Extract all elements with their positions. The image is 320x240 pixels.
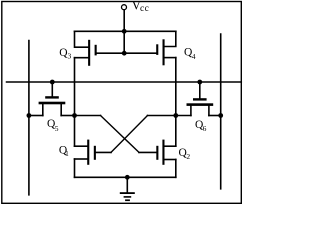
wire Q1 source down (74, 159, 76, 177)
wire Q6 gate lead (199, 82, 201, 98)
label Q2 (179, 147, 191, 161)
wire Vcc vertical (123, 10, 125, 53)
wire gate rail Q3-Q4 with Vcc tap (97, 52, 157, 54)
node dot left output (72, 113, 77, 118)
wire Q1 gate lead (96, 151, 111, 153)
label Q5 (47, 118, 59, 133)
wire right bit line (220, 34, 222, 189)
node dot on gate rail (122, 51, 127, 56)
wire Q6 to right bit line (209, 115, 221, 117)
label Q6 (195, 119, 207, 133)
wire left drop to Q3 drain (75, 31, 89, 47)
node dot bit line right (218, 113, 223, 118)
wire Q5 to left bit line (29, 115, 43, 117)
wire diagonal right node to Q1 gate (111, 116, 148, 153)
wire Q2 source down (175, 160, 177, 178)
wire left output node vertical (74, 58, 76, 147)
label Q1 (59, 144, 69, 158)
transistor Q3 (75, 40, 97, 66)
wire right output node vertical (175, 58, 177, 147)
transistor Q5 (39, 96, 66, 115)
svg-text:1: 1 (65, 150, 69, 158)
wire Q5 to left node (61, 115, 74, 117)
node dot bit line left (27, 113, 32, 118)
svg-text:6: 6 (203, 124, 207, 133)
label Vcc (132, 0, 149, 14)
svg-text:3: 3 (68, 51, 72, 60)
wire top drain rail (75, 30, 176, 32)
wire source rail (75, 176, 176, 178)
svg-text:2: 2 (186, 152, 190, 161)
label Q4 (184, 47, 196, 62)
transistor Q1 (75, 140, 96, 165)
terminal Vcc circle (122, 5, 127, 10)
svg-text:5: 5 (55, 124, 59, 133)
node dot word line right (197, 80, 202, 85)
node dot right output (173, 113, 178, 118)
wire cross stub right (148, 115, 176, 117)
wire Q6 to right node (176, 115, 191, 117)
node dot source rail (125, 175, 130, 180)
transistor Q2 (156, 140, 176, 165)
wire Q5 gate lead (51, 82, 53, 96)
wire Q2 gate lead (139, 151, 156, 153)
transistor Q4 (156, 39, 176, 65)
wire word line (7, 81, 242, 83)
node dot on drain rail (122, 29, 127, 34)
wire cross stub left (75, 115, 101, 117)
wire left bit line (28, 41, 30, 195)
transistor Q6 (187, 98, 214, 115)
label Q3 (59, 47, 71, 61)
wire right drop to Q4 drain (163, 31, 175, 46)
svg-text:cc: cc (140, 4, 149, 14)
node dot word line left (50, 80, 55, 85)
svg-text:4: 4 (192, 52, 196, 61)
wire diagonal left node to Q2 gate (101, 116, 140, 153)
ground (120, 177, 135, 201)
